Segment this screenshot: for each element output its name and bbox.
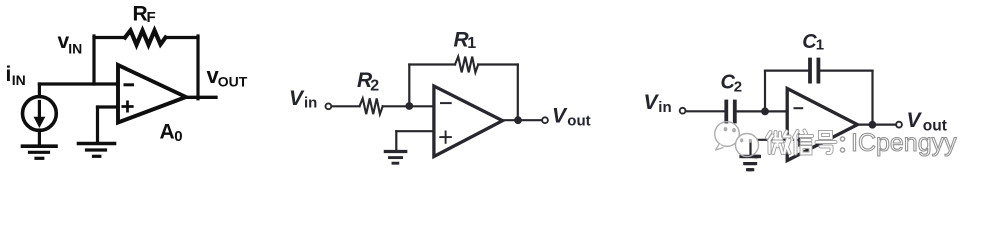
wire feedback left leg: [408, 65, 410, 107]
node B (output, middle): [514, 116, 522, 124]
wire feedback top-right segment: [166, 36, 199, 39]
watermark hanzi wei: [767, 132, 790, 154]
watermark colon: [840, 137, 844, 152]
label Vin (middle): [289, 87, 317, 111]
wire ground stub: [749, 140, 751, 155]
svg-text:V: V: [289, 87, 305, 110]
label A0: [160, 121, 183, 146]
label iIN: [6, 63, 26, 88]
label Vout (right): [907, 109, 947, 134]
terminal Vout (right): [896, 122, 902, 128]
wire feedback top-left: [765, 69, 808, 71]
svg-text:IN: IN: [12, 72, 26, 88]
svg-text:R: R: [133, 3, 148, 26]
wire feedback top-right: [478, 63, 518, 65]
ground G1 (under current source): [23, 144, 57, 148]
label R2: [357, 69, 379, 95]
terminal Vin: [326, 103, 332, 109]
current source arrow: [38, 102, 41, 119]
wire feedback right leg: [871, 71, 873, 125]
wire feedback top-left segment: [94, 36, 125, 39]
svg-text:ICpengyy: ICpengyy: [851, 129, 957, 157]
wire input: [686, 110, 725, 112]
label Vin (right): [644, 91, 672, 116]
svg-text:V: V: [552, 105, 568, 128]
wire inverting input: [39, 82, 118, 85]
op-amp triangle: [434, 86, 503, 157]
svg-text:0: 0: [174, 128, 182, 145]
wechat icon big bubble: [715, 122, 740, 150]
op-amp minus sign: [125, 83, 133, 86]
op-amp minus sign: [795, 107, 803, 109]
op-amp plus sign: [123, 102, 133, 111]
wire current source bottom stub: [38, 130, 41, 145]
svg-text:1: 1: [467, 35, 476, 52]
wire output: [186, 96, 216, 99]
capacitor C1: [808, 60, 812, 82]
watermark hanzi xin: [794, 131, 812, 154]
svg-text:2: 2: [734, 78, 742, 95]
ground (right): [741, 155, 759, 158]
capacitor C2: [724, 102, 728, 122]
svg-text:in: in: [304, 94, 317, 111]
node D (output, right): [869, 121, 877, 129]
terminal Vout: [542, 117, 548, 123]
wire feedback left leg: [764, 71, 766, 112]
label vIN: [58, 30, 83, 57]
wire non-inverting input: [98, 105, 119, 108]
wire ground stub: [395, 131, 397, 150]
op-amp plus sign: [440, 132, 451, 143]
node A (inverting input, middle): [405, 102, 413, 110]
svg-text:F: F: [147, 9, 156, 26]
wire feedback top-left: [409, 63, 455, 65]
wire plus input: [396, 130, 433, 132]
label vOUT: [207, 63, 248, 90]
label C2: [721, 72, 743, 96]
wechat icon small bubble: [736, 134, 760, 170]
svg-text:OUT: OUT: [218, 74, 248, 90]
wire feedback left leg: [92, 36, 95, 84]
op-amp minus sign: [441, 102, 451, 104]
svg-text:out: out: [567, 113, 590, 130]
wire current source top stub: [38, 84, 41, 96]
ground (middle): [385, 150, 405, 153]
svg-text:in: in: [658, 99, 671, 116]
label R1: [454, 29, 477, 52]
wire to inverting input: [737, 110, 787, 112]
svg-text:i: i: [6, 63, 12, 86]
op-amp A0 triangle: [118, 65, 186, 123]
ground G2 (under plus input): [79, 142, 115, 146]
wire output: [858, 123, 896, 125]
svg-text:V: V: [644, 91, 660, 114]
wire feedback top-right: [820, 69, 872, 71]
svg-text:IN: IN: [68, 41, 82, 57]
node C (inverting input, right): [761, 108, 769, 116]
svg-text:A: A: [160, 121, 175, 144]
label Vout (middle): [552, 105, 591, 130]
resistor R1: [455, 57, 478, 73]
label C1: [802, 31, 824, 54]
wire ground stub: [96, 107, 99, 142]
resistor R2: [360, 98, 383, 114]
svg-text:1: 1: [816, 37, 824, 54]
current source I1: [23, 97, 57, 131]
wire plus input: [751, 139, 788, 141]
watermark hanzi hao: [817, 132, 836, 153]
wire output: [503, 119, 542, 121]
terminal Vin (right): [680, 108, 686, 114]
wire to inverting input: [383, 105, 433, 107]
wire input: [332, 105, 360, 107]
op-amp triangle (right): [787, 89, 857, 161]
label RF: [133, 3, 156, 27]
op-amp plus sign: [794, 134, 805, 145]
resistor RF: [125, 31, 166, 45]
wire feedback right leg: [517, 65, 519, 121]
wire feedback right leg: [196, 36, 199, 99]
svg-text:2: 2: [370, 78, 379, 95]
